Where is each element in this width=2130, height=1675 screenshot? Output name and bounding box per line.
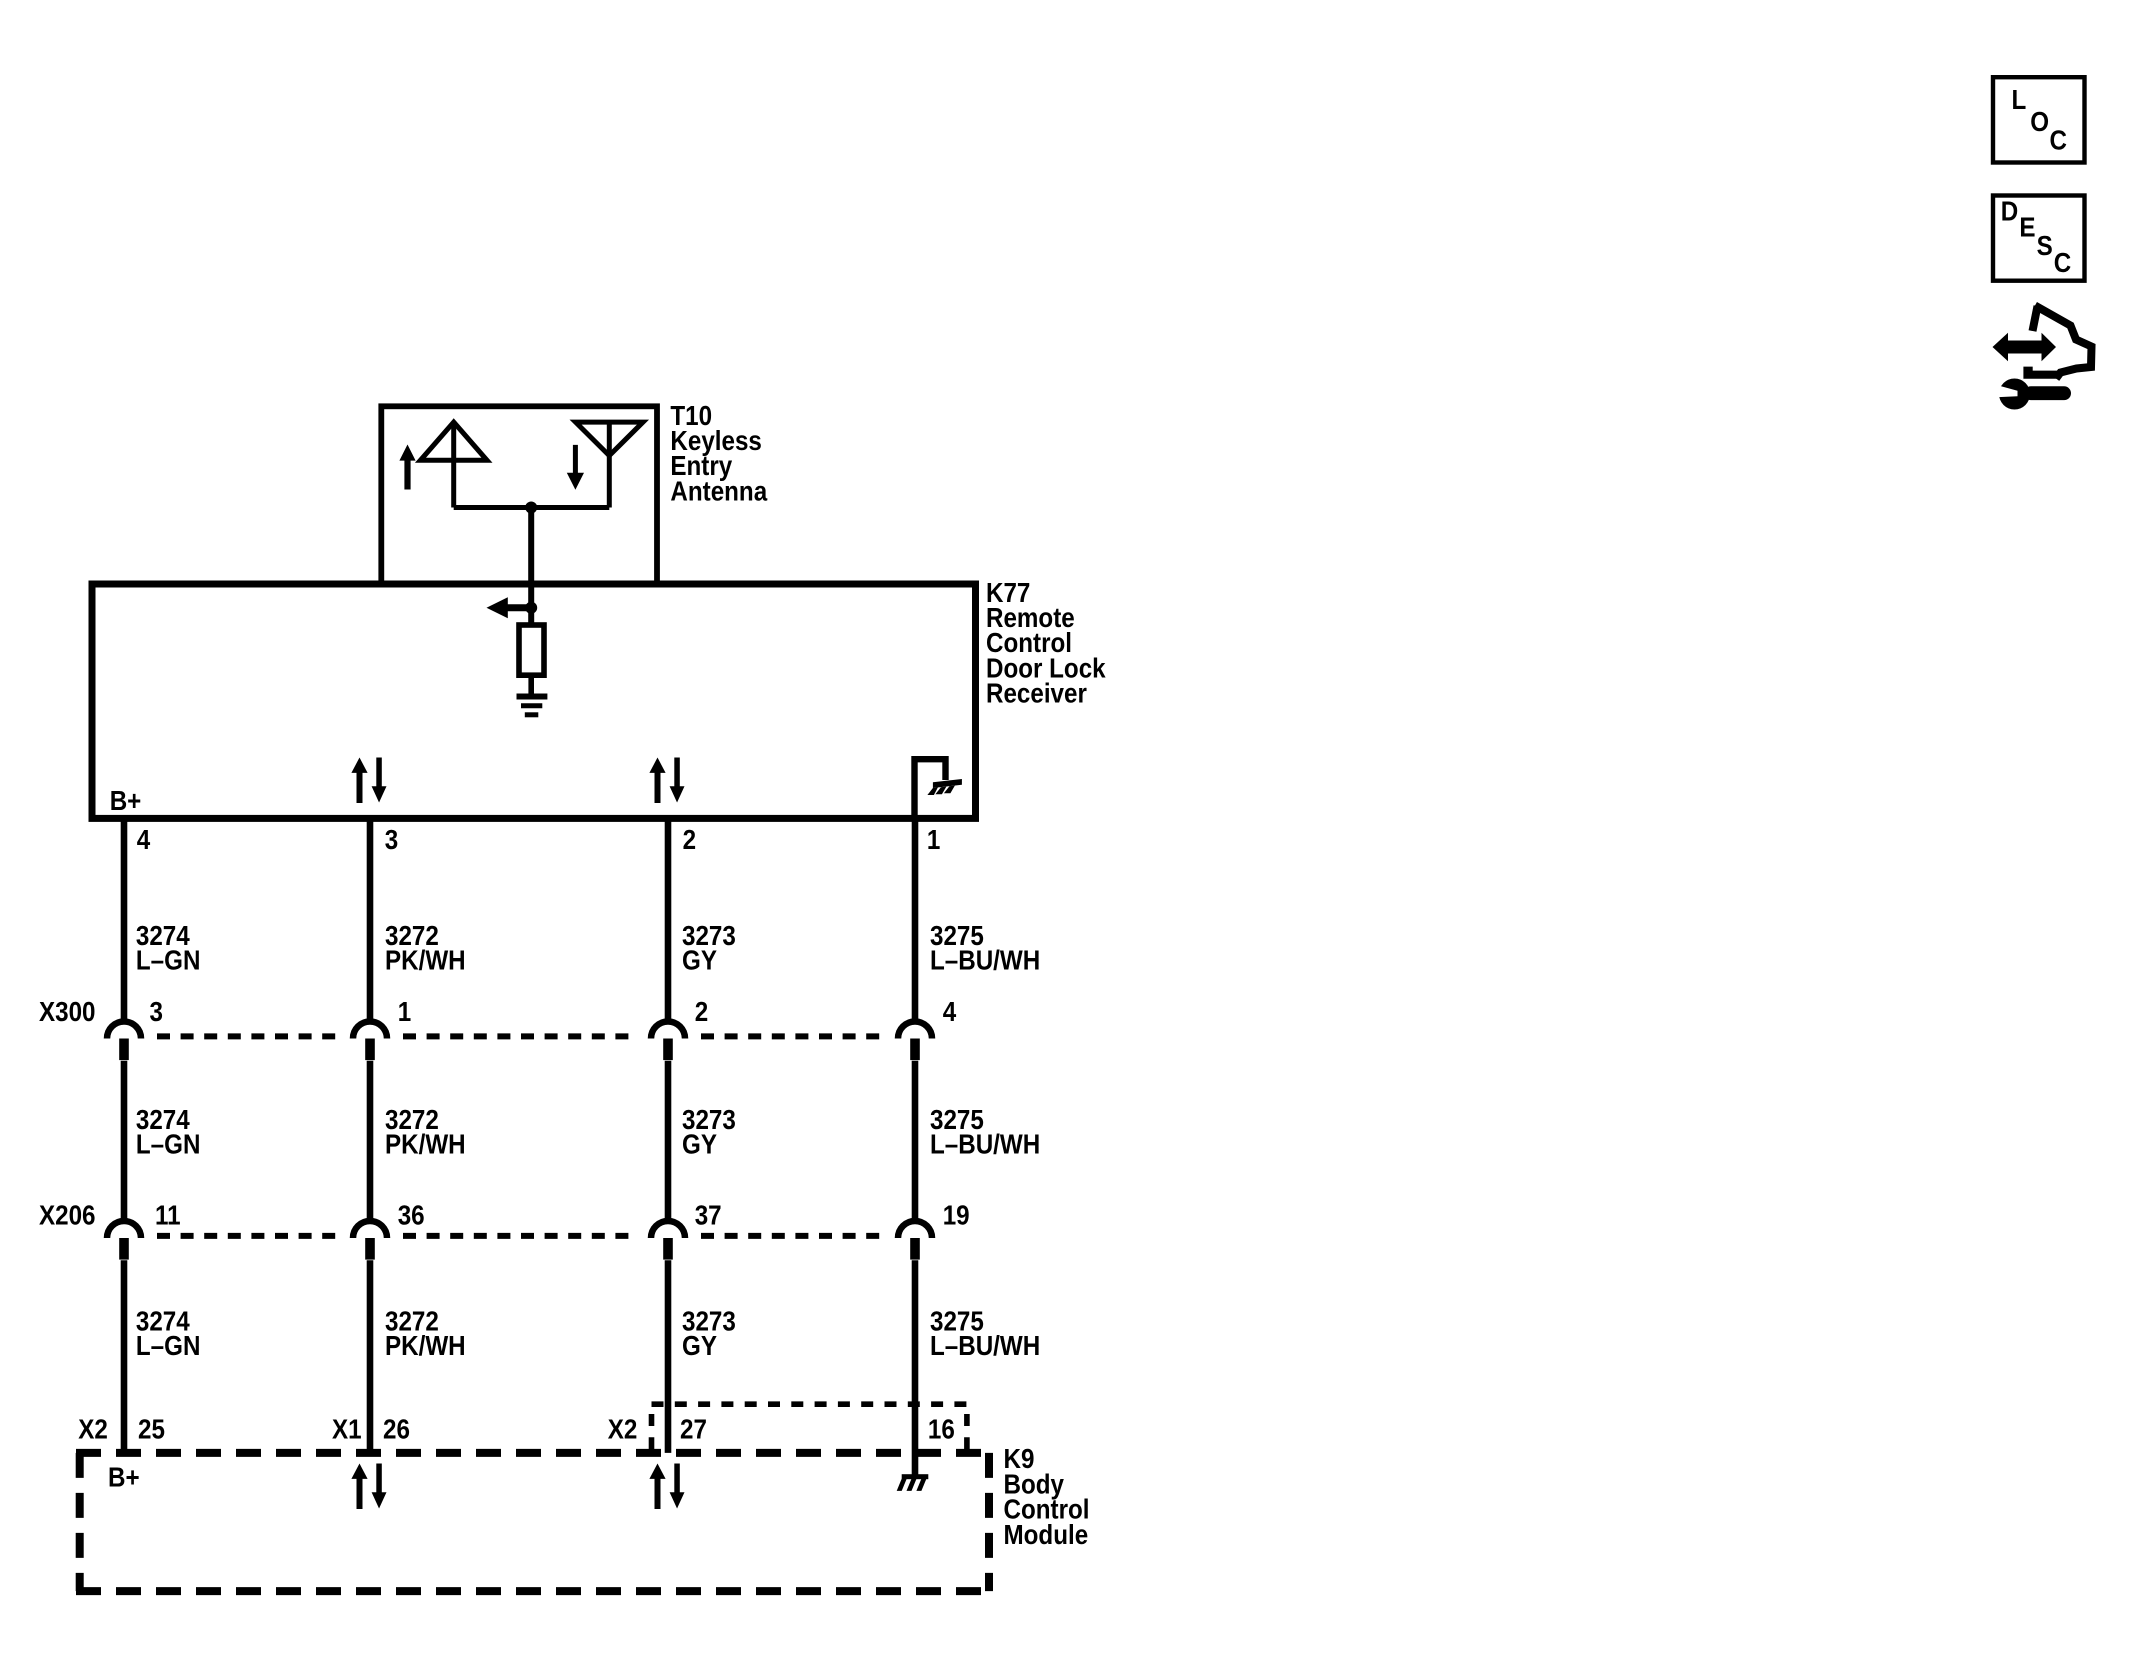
svg-text:PK/WH: PK/WH: [385, 946, 466, 976]
K9 dashed box: [76, 1453, 993, 1591]
svg-text:GY: GY: [682, 1332, 717, 1362]
svg-text:L–BU/WH: L–BU/WH: [930, 1332, 1040, 1362]
transmit antenna mast: [451, 422, 456, 507]
svg-text:25: 25: [138, 1415, 165, 1445]
svg-text:1: 1: [398, 998, 411, 1028]
T10 box: [381, 406, 657, 584]
svg-text:GY: GY: [682, 946, 717, 976]
up/down arrows pin3 K77: [351, 758, 386, 804]
X300 connector c1: [107, 1022, 141, 1061]
resistor R (antenna load): [519, 625, 544, 675]
wire 3273 seg2: [665, 1061, 672, 1222]
wire 3274 seg1: [121, 818, 128, 1021]
svg-text:11: 11: [155, 1201, 181, 1231]
X300 connector c2: [353, 1022, 387, 1061]
X300 connector c3: [651, 1022, 685, 1061]
receive antenna mast: [607, 422, 612, 507]
svg-text:L–BU/WH: L–BU/WH: [930, 1130, 1040, 1160]
up/down arrows pin2 K77: [649, 758, 684, 804]
BCM X2 dotted connector box: [652, 1404, 967, 1450]
X300 connector c4: [898, 1022, 932, 1061]
wire 3275 seg1: [912, 818, 919, 1021]
wire 3272 seg1: [367, 818, 374, 1021]
svg-text:C: C: [2050, 126, 2067, 156]
svg-text:L–GN: L–GN: [136, 946, 201, 976]
transmit antenna T1 (triangle up): [420, 422, 487, 460]
svg-text:PK/WH: PK/WH: [385, 1130, 466, 1160]
K77 label: [986, 578, 1106, 709]
double arrow: [1993, 333, 2057, 361]
svg-text:O: O: [2030, 107, 2049, 137]
svg-text:36: 36: [398, 1201, 425, 1231]
down arrow (receive): [567, 445, 584, 490]
svg-text:2: 2: [695, 998, 708, 1028]
wire 3272 seg2: [367, 1061, 374, 1222]
X206 harness dashed line: [157, 1233, 340, 1239]
svg-text:S: S: [2037, 232, 2053, 262]
wire 3273 seg1: [665, 818, 672, 1021]
svg-text:X1: X1: [332, 1415, 362, 1445]
X300 harness dashed line: [157, 1033, 340, 1039]
svg-text:D: D: [2001, 197, 2018, 227]
up/down arrows pin27 K9: [649, 1464, 684, 1510]
bottom bar of part: [2023, 367, 2059, 379]
svg-text:16: 16: [928, 1415, 955, 1445]
svg-text:X2: X2: [608, 1415, 638, 1445]
svg-text:26: 26: [383, 1415, 410, 1445]
X206 connector c1: [107, 1221, 141, 1260]
svg-text:L–BU/WH: L–BU/WH: [930, 946, 1040, 976]
junction dot on feed: [525, 602, 537, 614]
svg-text:PK/WH: PK/WH: [385, 1332, 466, 1362]
svg-text:4: 4: [137, 826, 151, 856]
antenna feed wire down: [528, 508, 534, 626]
svg-text:L–GN: L–GN: [136, 1130, 201, 1160]
antenna tie wire: [454, 505, 610, 510]
svg-text:Receiver: Receiver: [986, 679, 1087, 709]
svg-text:Antenna: Antenna: [670, 477, 767, 507]
wire 3273 seg3: [665, 1260, 672, 1453]
svg-text:C: C: [2054, 249, 2071, 279]
svg-text:37: 37: [695, 1201, 722, 1231]
wire 3272 seg3: [367, 1260, 374, 1453]
signal left-arrow inside K77: [487, 597, 508, 618]
svg-text:19: 19: [943, 1201, 970, 1231]
T10 label: [670, 401, 767, 506]
wrench: [1999, 379, 2030, 410]
svg-text:B+: B+: [110, 786, 142, 816]
remove/replace icon: [1993, 306, 2092, 410]
svg-text:Module: Module: [1004, 1520, 1089, 1550]
X206 connector c3: [651, 1221, 685, 1260]
resistor to ground wire: [528, 675, 534, 694]
svg-text:L–GN: L–GN: [136, 1332, 201, 1362]
svg-text:X206: X206: [39, 1201, 95, 1231]
up arrow (transmit): [399, 445, 415, 490]
wire 3274 seg3: [121, 1260, 128, 1453]
svg-text:3: 3: [385, 826, 398, 856]
svg-text:2: 2: [683, 826, 696, 856]
LOC box: [1993, 77, 2085, 162]
K77 box: [92, 584, 976, 818]
earth ground: [517, 697, 548, 715]
part outline: [2033, 306, 2038, 331]
svg-text:B+: B+: [108, 1463, 140, 1493]
wire 3275 seg3: [912, 1260, 919, 1475]
svg-text:E: E: [2019, 213, 2035, 243]
chassis ground K77: [927, 779, 962, 795]
internal ground link K77 pin1: [915, 759, 946, 818]
svg-text:X2: X2: [78, 1415, 108, 1445]
wire 3275 seg2: [912, 1061, 919, 1222]
X206 connector c2: [353, 1221, 387, 1260]
K9 label: [1004, 1445, 1090, 1550]
svg-text:GY: GY: [682, 1130, 717, 1160]
svg-text:X300: X300: [39, 998, 95, 1028]
X206 connector c4: [898, 1221, 932, 1260]
junction dot in T10: [525, 502, 537, 514]
receive antenna (triangle down): [576, 422, 643, 456]
svg-text:1: 1: [927, 826, 940, 856]
svg-text:L: L: [2012, 86, 2027, 116]
svg-text:27: 27: [680, 1415, 707, 1445]
chassis ground K9: [897, 1474, 929, 1491]
svg-text:4: 4: [943, 998, 957, 1028]
DESC box: [1993, 196, 2085, 281]
up/down arrows pin26 K9: [351, 1464, 386, 1510]
svg-text:3: 3: [150, 998, 163, 1028]
wire 3274 seg2: [121, 1061, 128, 1222]
